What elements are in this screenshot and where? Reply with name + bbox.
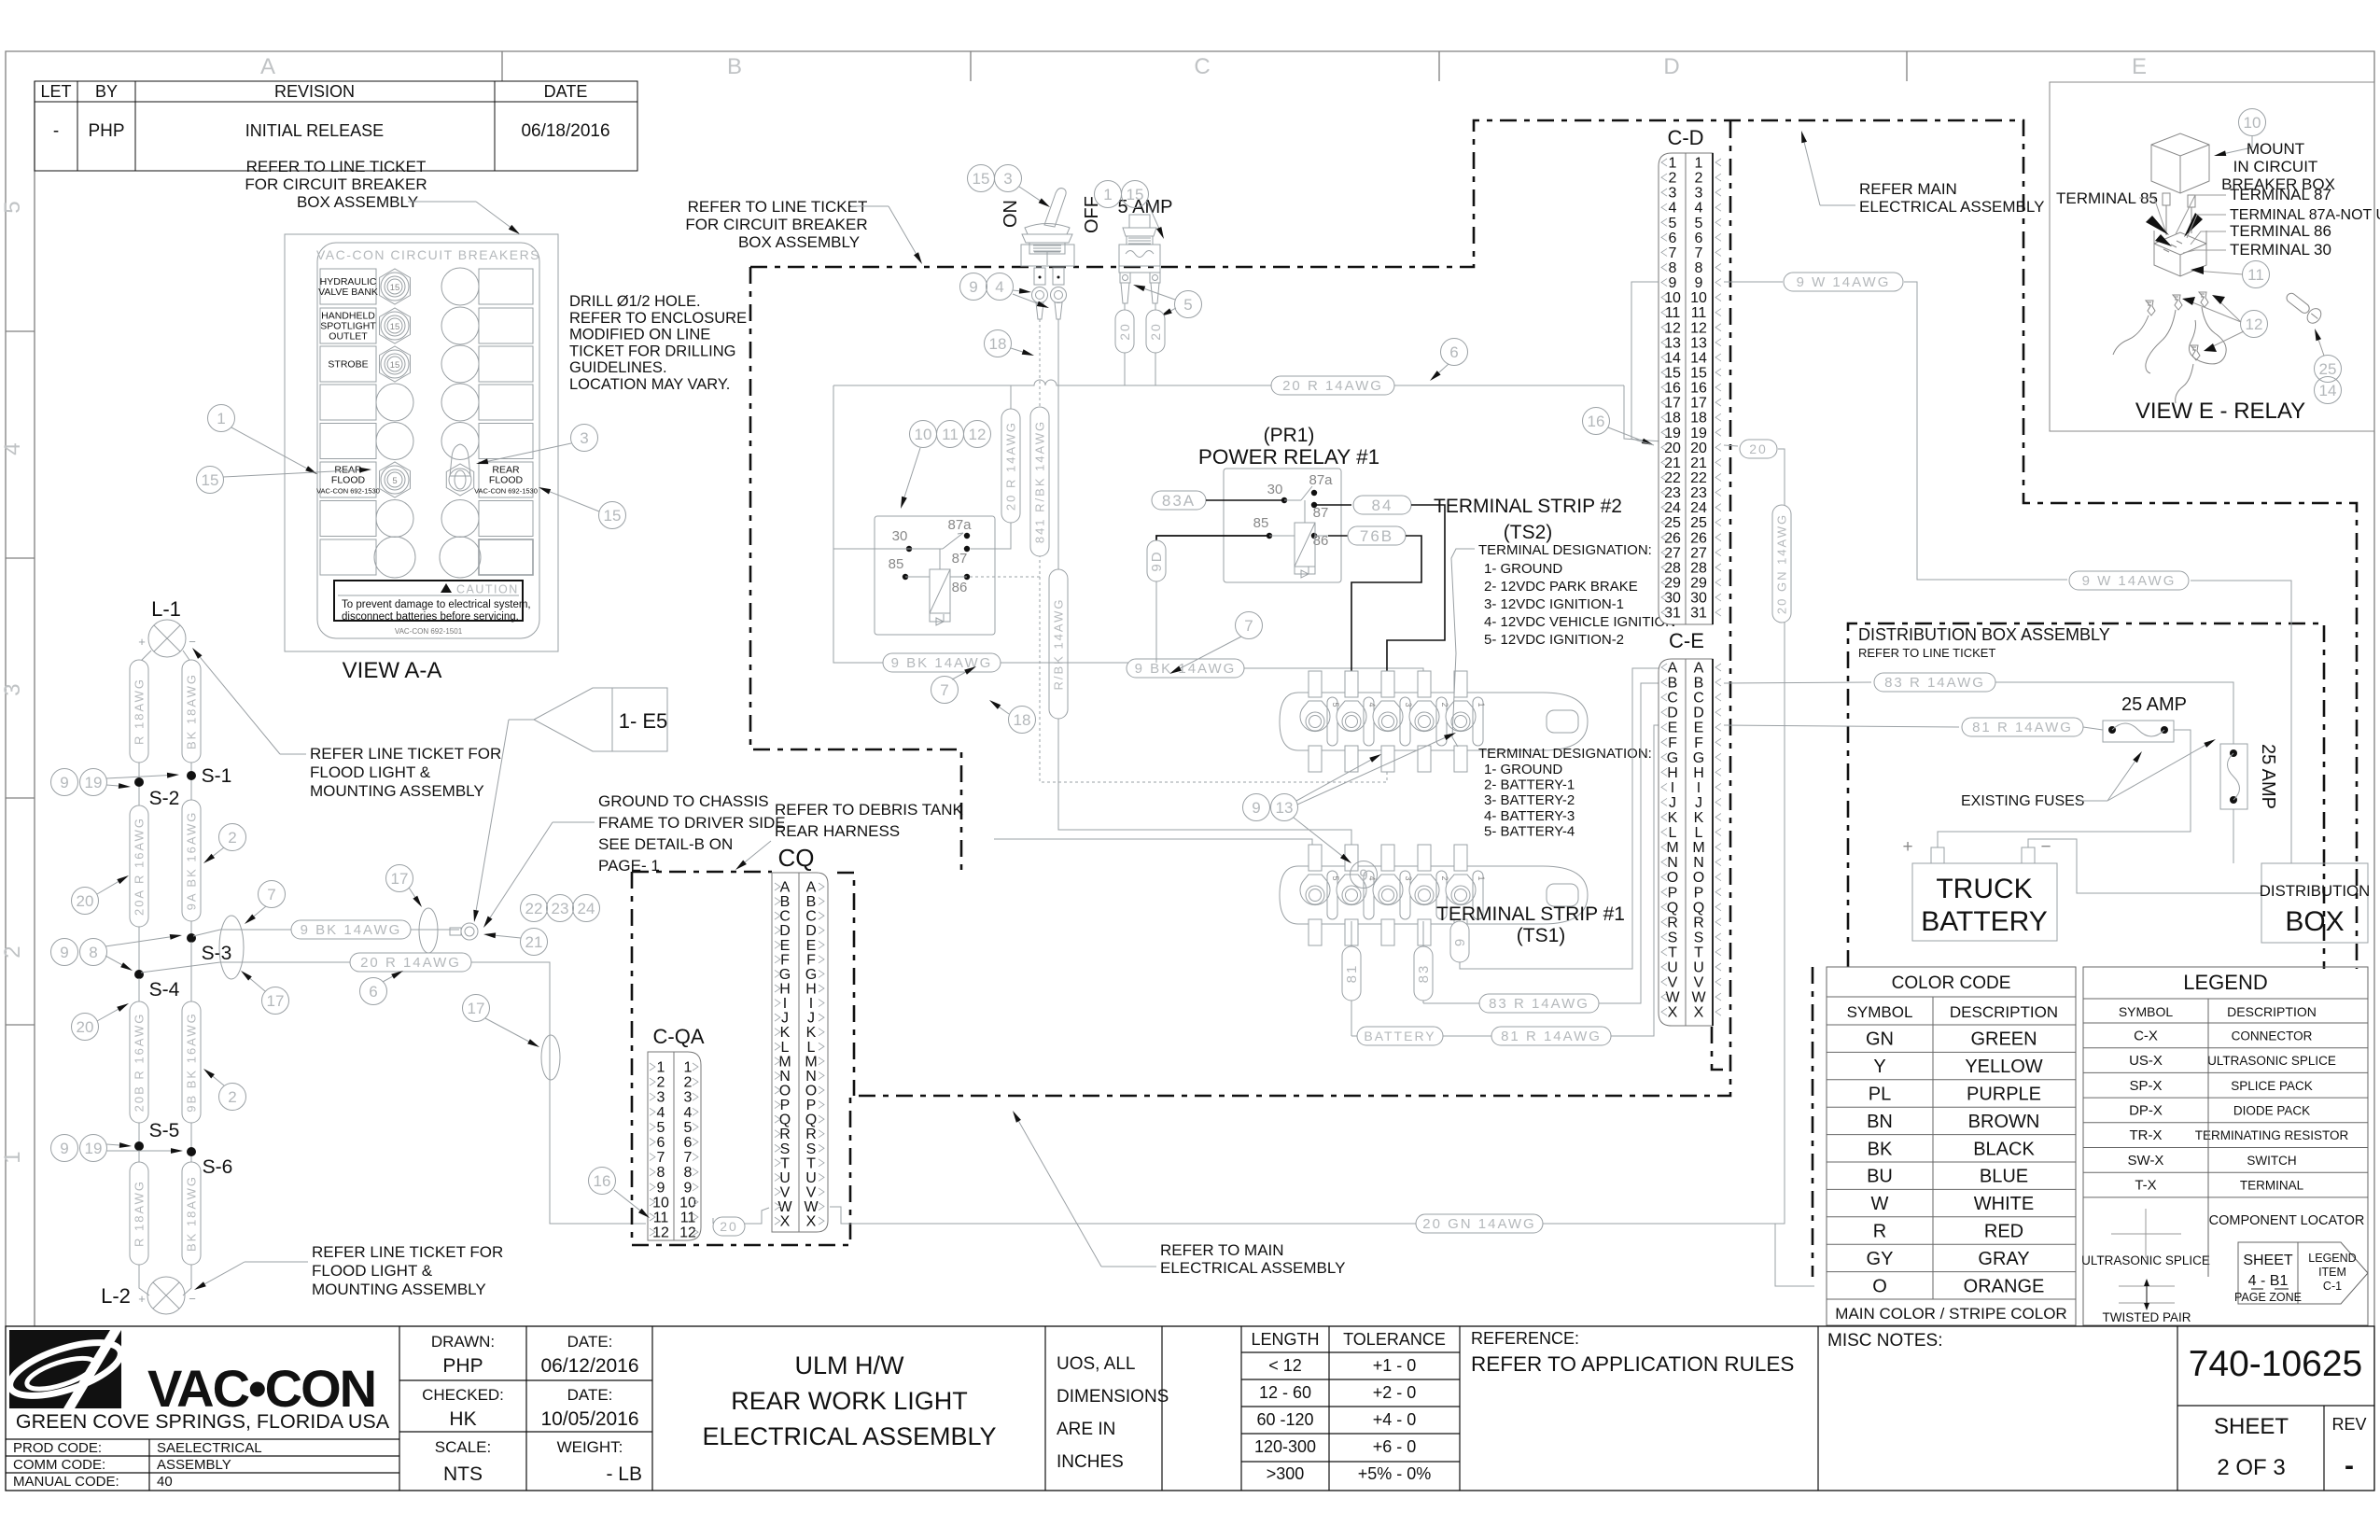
svg-text:E: E	[780, 938, 791, 954]
svg-text:B: B	[727, 54, 742, 79]
svg-text:MANUAL CODE:: MANUAL CODE:	[13, 1474, 119, 1490]
svg-text:EXISTING FUSES: EXISTING FUSES	[1961, 793, 2084, 809]
svg-text:1: 1	[1669, 156, 1677, 172]
splice S-4	[134, 970, 180, 1001]
callout 17 (ground splice)	[386, 865, 423, 908]
svg-text:R 18AWG: R 18AWG	[132, 1180, 146, 1247]
svg-text:16: 16	[1588, 413, 1605, 430]
wire 9 W 14AWG (C-D 9 to distribution)	[1724, 273, 2291, 863]
svg-text:B: B	[1668, 676, 1678, 692]
svg-text:U: U	[1667, 960, 1678, 976]
svg-text:S-1: S-1	[202, 765, 232, 787]
svg-text:A: A	[260, 54, 275, 79]
svg-text:12: 12	[969, 426, 987, 443]
note refer to main electrical assembly (bottom)	[1013, 1111, 1345, 1277]
svg-text:C-D: C-D	[1667, 126, 1703, 149]
svg-text:16: 16	[1664, 381, 1681, 397]
uos dimensions note	[1057, 1354, 1169, 1472]
svg-text:4: 4	[1367, 702, 1377, 707]
svg-text:FLOOD: FLOOD	[331, 475, 366, 486]
svg-text:5- 12VDC IGNITION-2: 5- 12VDC IGNITION-2	[1484, 632, 1624, 648]
svg-text:ELECTRICAL ASSEMBLY: ELECTRICAL ASSEMBLY	[1859, 198, 2044, 216]
svg-text:FOR CIRCUIT BREAKER: FOR CIRCUIT BREAKER	[685, 216, 867, 233]
svg-text:TOLERANCE: TOLERANCE	[1343, 1330, 1446, 1349]
callout 7 (9D wire)	[1169, 612, 1263, 675]
svg-text:X: X	[1694, 1005, 1704, 1021]
svg-text:14: 14	[1664, 350, 1681, 366]
svg-text:C-QA: C-QA	[653, 1025, 705, 1048]
svg-text:S-4: S-4	[149, 979, 180, 1001]
svg-text:DIODE PACK: DIODE PACK	[2233, 1103, 2310, 1117]
svg-text:A: A	[780, 880, 791, 896]
svg-text:ARE IN: ARE IN	[1057, 1420, 1115, 1439]
wire 83 (TS1-2 to C-E B)	[1414, 683, 1660, 1013]
svg-text:7: 7	[267, 886, 275, 903]
svg-text:PHP: PHP	[442, 1355, 483, 1377]
svg-text:X: X	[806, 1214, 817, 1230]
svg-text:C-E: C-E	[1669, 629, 1704, 652]
svg-text:17: 17	[1690, 396, 1707, 412]
svg-text:LEGEND: LEGEND	[2183, 971, 2267, 994]
svg-text:P: P	[1694, 885, 1704, 901]
svg-text:BOX ASSEMBLY: BOX ASSEMBLY	[738, 233, 860, 251]
svg-text:G: G	[1693, 750, 1704, 766]
svg-text:BATTERY: BATTERY	[1364, 1029, 1435, 1043]
svg-text:11: 11	[653, 1211, 669, 1226]
wire to TS1 post 5	[994, 839, 1312, 866]
svg-text:1: 1	[0, 1151, 25, 1163]
svg-text:RED: RED	[1984, 1222, 2023, 1242]
svg-text:DISTRIBUTION BOX ASSEMBLY: DISTRIBUTION BOX ASSEMBLY	[1858, 625, 2110, 644]
svg-text:4: 4	[995, 278, 1003, 296]
svg-text:9A BK 16AWG: 9A BK 16AWG	[184, 811, 198, 911]
callouts 9 19 (lower splices)	[51, 1135, 184, 1162]
svg-text:6: 6	[369, 983, 377, 1001]
svg-text:C: C	[805, 909, 817, 925]
svg-text:M: M	[778, 1054, 791, 1070]
wire 9D (PR1 85)	[1147, 536, 1269, 663]
svg-text:A: A	[1694, 661, 1704, 677]
note existing fuses	[1961, 739, 2216, 809]
svg-text:1- E5: 1- E5	[619, 709, 668, 733]
svg-text:85: 85	[889, 556, 904, 572]
svg-text:U: U	[1693, 960, 1704, 976]
svg-text:15: 15	[1690, 365, 1707, 381]
svg-text:V: V	[1668, 975, 1678, 991]
svg-text:BROWN: BROWN	[1968, 1112, 2040, 1132]
svg-text:1: 1	[1103, 186, 1112, 203]
svg-text:INCHES: INCHES	[1057, 1452, 1124, 1472]
svg-text:3: 3	[1669, 186, 1677, 202]
color code table	[1827, 967, 2076, 1325]
relay cube (view E)	[2151, 133, 2209, 235]
distribution box assembly label	[1858, 625, 2110, 660]
svg-text:F: F	[806, 952, 816, 968]
wire 9B BK 16AWG	[182, 942, 201, 1149]
svg-text:Q: Q	[779, 1113, 791, 1128]
svg-text:BK: BK	[1868, 1139, 1893, 1159]
svg-text:R: R	[779, 1127, 791, 1142]
svg-text:TERMINAL: TERMINAL	[2240, 1179, 2304, 1193]
svg-text:24: 24	[1664, 500, 1681, 516]
svg-text:11: 11	[1691, 305, 1707, 321]
svg-text:DISTRIBUTION: DISTRIBUTION	[2260, 882, 2370, 900]
location flag 1-E5	[473, 688, 667, 922]
svg-text:31: 31	[1664, 606, 1681, 622]
ultrasonic splice oval (at ground)	[419, 908, 438, 953]
svg-text:13: 13	[1276, 799, 1294, 817]
svg-text:20B R 16AWG: 20B R 16AWG	[132, 1013, 146, 1113]
svg-text:D: D	[1667, 706, 1678, 721]
svg-text:20 R 14AWG: 20 R 14AWG	[1282, 378, 1383, 394]
svg-text:25: 25	[2319, 360, 2337, 378]
svg-text:87: 87	[1313, 505, 1329, 521]
svg-text:DATE:: DATE:	[567, 1333, 613, 1351]
callout 18 (toggle wires)	[985, 330, 1035, 357]
svg-text:J: J	[807, 1011, 815, 1027]
svg-text:30: 30	[1267, 482, 1283, 497]
svg-text:27: 27	[1664, 545, 1681, 561]
svg-text:8: 8	[657, 1165, 665, 1181]
svg-text:5: 5	[1669, 216, 1677, 231]
svg-text:11: 11	[2247, 266, 2264, 284]
svg-text:9D: 9D	[1149, 550, 1165, 571]
svg-text:85: 85	[1253, 515, 1269, 531]
svg-text:MISC NOTES:: MISC NOTES:	[1827, 1331, 1943, 1351]
wire 9A BK 16AWG	[182, 780, 201, 934]
svg-text:LEGEND: LEGEND	[2308, 1252, 2356, 1265]
svg-text:REFER TO ENCLOSURE: REFER TO ENCLOSURE	[569, 310, 747, 327]
svg-text:TRUCK: TRUCK	[1936, 874, 2032, 904]
svg-text:W: W	[1665, 990, 1680, 1006]
note refer to line ticket (circuit breaker box) middle	[685, 198, 922, 264]
svg-text:S-2: S-2	[149, 788, 180, 809]
callout 6 (20 R wire)	[360, 971, 404, 1005]
svg-text:ON: ON	[1001, 200, 1021, 228]
svg-text:30: 30	[892, 528, 908, 544]
relay socket cube (view E)	[2154, 231, 2206, 276]
svg-text:2: 2	[684, 1075, 693, 1091]
callout 5 (breaker terminals)	[1133, 285, 1202, 318]
wire R 18AWG (L-1 +)	[130, 651, 151, 777]
callout 16 (C-D pin 20)	[1583, 408, 1655, 446]
label terminal 30	[2183, 241, 2331, 259]
svg-text:ORANGE: ORANGE	[1964, 1276, 2045, 1296]
svg-text:18: 18	[1014, 711, 1031, 729]
svg-text:8: 8	[1695, 260, 1703, 276]
svg-text:COLOR CODE: COLOR CODE	[1892, 973, 2011, 993]
svg-text:I: I	[809, 996, 813, 1012]
svg-text:−: −	[189, 1292, 196, 1306]
svg-text:SPLICE PACK: SPLICE PACK	[2231, 1079, 2313, 1093]
svg-text:VAC-CON 692-1530: VAC-CON 692-1530	[474, 487, 538, 496]
svg-text:V: V	[1694, 975, 1704, 991]
caution label	[334, 581, 531, 636]
svg-text:25 AMP: 25 AMP	[2121, 694, 2187, 715]
svg-text:26: 26	[1690, 530, 1707, 546]
svg-text:9: 9	[1695, 275, 1703, 291]
svg-text:60 -120: 60 -120	[1256, 1410, 1313, 1429]
svg-text:10: 10	[915, 426, 932, 443]
distribution box	[2260, 863, 2370, 943]
wire BK 18AWG (L-1 -)	[182, 651, 201, 773]
svg-text:28: 28	[1664, 560, 1681, 576]
svg-text:H: H	[1693, 765, 1704, 781]
svg-text:WEIGHT:: WEIGHT:	[557, 1438, 623, 1456]
ultrasonic splice oval (left)	[219, 916, 244, 979]
callouts 9 4 (toggle terminals)	[960, 273, 1050, 309]
svg-text:9: 9	[684, 1180, 693, 1196]
wire BK 18AWG (L-2)	[182, 1156, 201, 1281]
drawing title	[702, 1351, 996, 1450]
svg-text:5- BATTERY-4: 5- BATTERY-4	[1484, 823, 1575, 839]
svg-text:DESCRIPTION: DESCRIPTION	[1950, 1003, 2058, 1021]
svg-text:GREEN COVE SPRINGS, FLORIDA US: GREEN COVE SPRINGS, FLORIDA USA	[16, 1410, 390, 1433]
svg-text:1- GROUND: 1- GROUND	[1484, 762, 1562, 777]
svg-text:I: I	[1671, 780, 1674, 796]
callout 12 (wire terminals)	[2182, 295, 2268, 352]
ultrasonic splice oval (20R wire)	[541, 1035, 560, 1080]
svg-text:+1 - 0: +1 - 0	[1373, 1356, 1417, 1375]
svg-text:15: 15	[604, 507, 622, 525]
svg-text:W: W	[1871, 1194, 1889, 1214]
callouts 15 3 (toggle switch)	[968, 165, 1051, 208]
svg-text:+2 - 0: +2 - 0	[1373, 1383, 1417, 1402]
svg-text:BN: BN	[1867, 1112, 1893, 1132]
svg-text:1: 1	[217, 410, 225, 427]
svg-text:11: 11	[942, 426, 959, 443]
svg-text:VAC•CON: VAC•CON	[147, 1359, 375, 1418]
note refer to line ticket (circuit breaker box) left	[245, 158, 520, 234]
svg-text:7: 7	[1695, 245, 1703, 261]
svg-text:13: 13	[1690, 335, 1707, 351]
svg-text:19: 19	[1690, 426, 1707, 441]
svg-text:STROBE: STROBE	[328, 359, 368, 371]
svg-text:S: S	[1668, 930, 1678, 945]
svg-text:SHEET: SHEET	[2243, 1253, 2293, 1268]
connector C-E	[1659, 629, 1721, 1026]
svg-text:N: N	[779, 1069, 791, 1085]
svg-text:PL: PL	[1869, 1085, 1891, 1105]
svg-text:+6 - 0: +6 - 0	[1373, 1437, 1417, 1456]
svg-text:REFER LINE TICKET FOR: REFER LINE TICKET FOR	[312, 1243, 503, 1261]
svg-text:S-3: S-3	[202, 943, 232, 964]
svg-text:E: E	[1694, 721, 1704, 736]
wire 20 R 14AWG vertical (relay)	[971, 409, 1020, 549]
svg-text:N: N	[805, 1069, 817, 1085]
svg-text:X: X	[780, 1214, 791, 1230]
svg-text:2: 2	[228, 829, 236, 847]
label terminal 85	[2056, 189, 2165, 231]
svg-text:TERMINAL DESIGNATION:: TERMINAL DESIGNATION:	[1478, 746, 1652, 762]
svg-text:9: 9	[657, 1180, 665, 1196]
svg-text:INITIAL RELEASE: INITIAL RELEASE	[245, 121, 384, 140]
svg-text:SHEET: SHEET	[2214, 1414, 2289, 1439]
svg-text:21: 21	[1664, 455, 1681, 471]
svg-text:REFERENCE:: REFERENCE:	[1471, 1329, 1579, 1348]
svg-text:19: 19	[1664, 426, 1681, 441]
svg-text:O: O	[805, 1083, 817, 1099]
svg-text:N: N	[1667, 855, 1678, 871]
svg-text:GRAY: GRAY	[1978, 1249, 2029, 1269]
svg-text:12: 12	[652, 1225, 669, 1241]
svg-text:+: +	[138, 635, 146, 649]
svg-text:7: 7	[1244, 617, 1253, 635]
svg-text:6: 6	[684, 1135, 693, 1151]
svg-text:3- 12VDC IGNITION-1: 3- 12VDC IGNITION-1	[1484, 596, 1624, 612]
wire battery - to distribution box	[2028, 839, 2261, 893]
svg-text:FOR CIRCUIT BREAKER: FOR CIRCUIT BREAKER	[245, 175, 427, 193]
svg-text:BATTERY: BATTERY	[1921, 906, 2048, 937]
svg-text:3- BATTERY-2: 3- BATTERY-2	[1484, 792, 1575, 808]
callout 17 (splice oval upper)	[241, 971, 289, 1015]
svg-text:19: 19	[85, 1140, 103, 1157]
svg-text:C: C	[1194, 54, 1210, 79]
note refer to debris tank rear harness	[735, 801, 964, 870]
svg-text:8: 8	[684, 1165, 693, 1181]
svg-text:23: 23	[552, 900, 569, 917]
svg-text:GY: GY	[1867, 1249, 1894, 1269]
svg-text:F: F	[780, 952, 790, 968]
svg-text:15: 15	[202, 471, 219, 489]
svg-text:2: 2	[0, 945, 25, 958]
svg-text:P: P	[780, 1098, 791, 1113]
callout 6 (20 R wire)	[1430, 339, 1468, 382]
svg-text:1: 1	[1477, 702, 1486, 707]
callouts 9 13 (terminal strips)	[1243, 733, 1457, 863]
svg-text:T: T	[806, 1155, 816, 1171]
svg-text:18: 18	[1690, 411, 1707, 427]
svg-text:O: O	[1667, 870, 1678, 886]
tolerance table	[1251, 1330, 1445, 1483]
callout 9 (TS1)	[1351, 861, 1378, 889]
svg-text:VAC-CON 692-1501: VAC-CON 692-1501	[395, 627, 463, 636]
callout 20 (20B wire)	[72, 1003, 130, 1041]
svg-text:D: D	[1663, 54, 1679, 79]
svg-text:7: 7	[684, 1150, 693, 1166]
svg-text:CHECKED:: CHECKED:	[422, 1386, 504, 1404]
svg-text:MAIN COLOR / STRIPE COLOR: MAIN COLOR / STRIPE COLOR	[1835, 1305, 2066, 1323]
screw (view E)	[2283, 289, 2324, 327]
svg-text:6: 6	[1669, 231, 1677, 246]
svg-text:20: 20	[1117, 322, 1132, 341]
svg-text:4: 4	[657, 1105, 665, 1121]
svg-text:6: 6	[657, 1135, 665, 1151]
svg-text:W: W	[1691, 990, 1706, 1006]
svg-text:15: 15	[973, 170, 990, 188]
relay (harness) with pins 30 85 86 87 87a	[875, 516, 995, 635]
note refer line ticket flood light (top)	[192, 648, 501, 800]
svg-text:K: K	[780, 1025, 791, 1041]
svg-text:TERMINAL 87: TERMINAL 87	[2230, 186, 2331, 203]
title block codes	[13, 1440, 262, 1490]
svg-text:W: W	[777, 1199, 792, 1215]
callout 2 (9A wire)	[203, 824, 246, 864]
svg-text:−: −	[2040, 837, 2051, 857]
svg-text:S-6: S-6	[203, 1156, 233, 1178]
svg-text:12: 12	[1690, 320, 1707, 336]
svg-text:To prevent damage to electrica: To prevent damage to electrical system,	[342, 599, 531, 610]
svg-text:9 W 14AWG: 9 W 14AWG	[1797, 274, 1891, 290]
title block	[6, 1326, 2374, 1491]
svg-text:20: 20	[720, 1219, 738, 1234]
svg-text:23: 23	[1664, 485, 1681, 501]
svg-text:G: G	[1667, 750, 1678, 766]
wire 84 (PR1 87 to TS2-3)	[1314, 496, 1445, 693]
svg-text:10: 10	[2244, 114, 2261, 132]
svg-text:12: 12	[2246, 315, 2263, 333]
svg-text:ELECTRICAL ASSEMBLY: ELECTRICAL ASSEMBLY	[702, 1422, 996, 1450]
svg-text:G: G	[779, 967, 791, 983]
svg-text:25: 25	[1690, 515, 1707, 531]
svg-text:MOUNTING ASSEMBLY: MOUNTING ASSEMBLY	[312, 1281, 486, 1298]
svg-text:T: T	[1694, 945, 1703, 960]
svg-text:CONNECTOR: CONNECTOR	[2232, 1029, 2313, 1043]
svg-text:BLACK: BLACK	[1973, 1139, 2035, 1159]
svg-text:5: 5	[392, 476, 397, 486]
svg-text:15: 15	[390, 360, 400, 371]
svg-text:HK: HK	[449, 1408, 476, 1430]
connector C-D	[1659, 126, 1721, 624]
svg-text:COMM CODE:: COMM CODE:	[13, 1457, 105, 1473]
svg-text:REAR WORK LIGHT: REAR WORK LIGHT	[731, 1387, 968, 1415]
svg-text:TERMINAL 86: TERMINAL 86	[2230, 222, 2331, 240]
svg-text:< 12: < 12	[1268, 1356, 1302, 1375]
svg-text:6: 6	[1695, 231, 1703, 246]
circuit breaker CB 5 AMP	[1118, 197, 1173, 303]
wire 841 R/BK to relay (toggle left)	[1030, 319, 1049, 577]
svg-text:B: B	[780, 894, 791, 910]
svg-text:FLOOD LIGHT &: FLOOD LIGHT &	[312, 1262, 433, 1280]
svg-text:40: 40	[157, 1474, 173, 1490]
wire 20B R 16AWG	[130, 978, 148, 1143]
svg-text:-: -	[2345, 1450, 2354, 1481]
svg-text:R 18AWG: R 18AWG	[132, 678, 146, 745]
svg-text:(TS2): (TS2)	[1504, 522, 1553, 543]
callout 2 (9B wire)	[203, 1069, 246, 1111]
svg-text:E: E	[2132, 54, 2147, 79]
svg-text:12: 12	[679, 1225, 696, 1241]
svg-text:O: O	[1872, 1276, 1887, 1296]
callout 15 (left rear flood breaker)	[197, 467, 372, 494]
svg-text:T: T	[780, 1155, 790, 1171]
svg-text:4- BATTERY-3: 4- BATTERY-3	[1484, 808, 1575, 824]
svg-text:+4 - 0: +4 - 0	[1373, 1410, 1417, 1429]
svg-text:C: C	[1667, 691, 1678, 707]
svg-text:(TS1): (TS1)	[1517, 925, 1566, 946]
svg-text:REFER TO LINE TICKET: REFER TO LINE TICKET	[688, 198, 868, 216]
svg-text:120-300: 120-300	[1254, 1437, 1316, 1456]
note ground to chassis	[483, 792, 786, 928]
callout 11 (socket)	[2191, 261, 2270, 288]
splice S-6	[187, 1147, 232, 1178]
svg-text:T-X: T-X	[2135, 1178, 2156, 1194]
note drill hole guidelines	[569, 293, 747, 393]
svg-text:R: R	[1667, 915, 1678, 931]
revision table	[35, 81, 637, 171]
svg-text:ITEM: ITEM	[2318, 1266, 2346, 1279]
connector C-QA	[648, 1025, 705, 1241]
svg-text:REV: REV	[2331, 1415, 2366, 1434]
switch SW toggle ON/OFF	[1001, 189, 1102, 319]
svg-text:22: 22	[1690, 470, 1707, 486]
svg-text:TERMINAL 30: TERMINAL 30	[2230, 241, 2331, 259]
view E relay detail box	[2050, 82, 2374, 431]
legend table	[2081, 967, 2368, 1325]
svg-text:REFER TO LINE TICKET: REFER TO LINE TICKET	[246, 158, 427, 175]
svg-text:29: 29	[1664, 575, 1681, 591]
svg-text:5: 5	[1331, 702, 1340, 707]
